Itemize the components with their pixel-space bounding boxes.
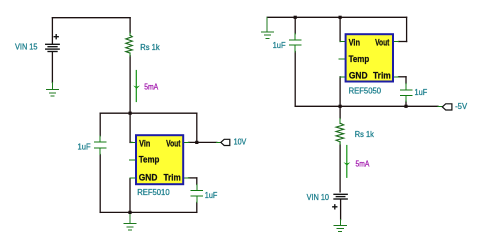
svg-text:5mA: 5mA (356, 159, 370, 168)
svg-text:Vin: Vin (139, 138, 150, 149)
svg-text:Vout: Vout (375, 38, 390, 49)
svg-text:VIN 10: VIN 10 (307, 193, 330, 202)
svg-text:10V: 10V (234, 138, 247, 147)
svg-text:GND: GND (349, 70, 368, 81)
svg-text:Rs 1k: Rs 1k (140, 43, 160, 52)
svg-text:REF5010: REF5010 (137, 188, 170, 197)
svg-text:Temp: Temp (139, 155, 160, 166)
svg-text:Temp: Temp (349, 54, 370, 65)
svg-text:Trim: Trim (164, 173, 181, 184)
svg-text:Vin: Vin (349, 38, 360, 49)
svg-text:-5V: -5V (455, 102, 468, 111)
svg-text:REF5050: REF5050 (349, 86, 382, 95)
svg-text:1uF: 1uF (273, 41, 286, 50)
svg-text:1uF: 1uF (415, 88, 428, 97)
svg-text:Trim: Trim (373, 70, 391, 81)
svg-text:VIN 15: VIN 15 (15, 43, 38, 52)
svg-text:Vout: Vout (166, 138, 181, 149)
svg-text:GND: GND (139, 173, 158, 184)
svg-text:1uF: 1uF (78, 143, 91, 152)
svg-text:5mA: 5mA (144, 82, 158, 91)
svg-text:Rs 1k: Rs 1k (355, 130, 375, 139)
svg-text:1uF: 1uF (205, 191, 218, 200)
